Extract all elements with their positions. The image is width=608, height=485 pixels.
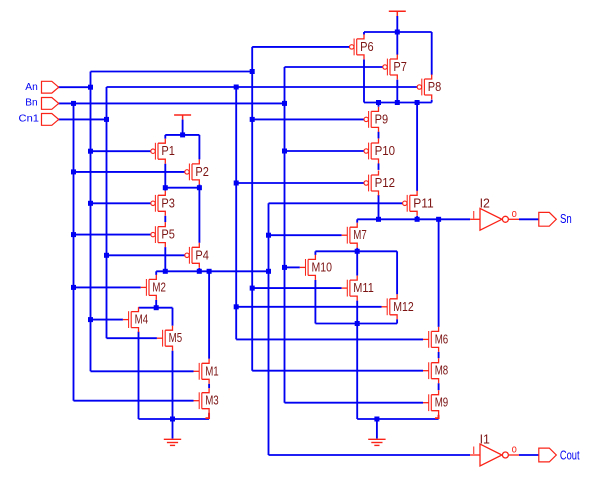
wire An top rail	[91, 71, 253, 73]
input port Cn1	[42, 114, 59, 126]
wire M7 drain stub	[356, 219, 358, 222]
wire M12 drain vertical	[396, 251, 398, 294]
svg-text:M9: M9	[435, 395, 449, 410]
transistor M3 (NMOS)	[194, 388, 210, 413]
junction M4 gate	[88, 317, 93, 322]
wire M11 gate wire	[252, 287, 341, 289]
wire P5 source vertical	[164, 247, 166, 271]
svg-text:P12: P12	[375, 175, 396, 190]
junction M2 gate	[71, 285, 76, 290]
wire M11 source vertical	[356, 301, 358, 324]
wire M2 drain stub	[155, 271, 157, 275]
junction M6 drain	[436, 217, 441, 222]
transistor M12 (NMOS)	[382, 294, 398, 319]
wire P2 source stub	[198, 184, 200, 187]
wire M5 gate wire	[107, 337, 157, 339]
wire node Cb vertical	[268, 203, 270, 455]
power VDD left	[174, 115, 191, 120]
junction P12 gate	[234, 181, 239, 186]
wire P3s-P5d stub	[164, 216, 166, 222]
wire node Sn rail	[357, 218, 470, 220]
junction P2s-P4d	[197, 185, 202, 190]
junction P11 drain	[415, 100, 420, 105]
wire I1 output wire	[519, 454, 539, 456]
wire M9 source stub	[438, 415, 440, 419]
svg-text:M10: M10	[312, 259, 333, 274]
svg-text:P9: P9	[375, 111, 389, 126]
svg-text:P11: P11	[413, 195, 434, 210]
wire M9 gate wire	[285, 402, 424, 404]
transistor M9 (NMOS)	[423, 390, 439, 415]
junction M11 gate	[250, 286, 255, 291]
junction P2 gate	[71, 169, 76, 174]
svg-text:M1: M1	[205, 363, 219, 378]
junction P9 drain	[376, 100, 381, 105]
junction P12 source	[376, 217, 381, 222]
wire P6 drain stub	[363, 32, 365, 35]
junction P4 source	[197, 269, 202, 274]
junction M10 gate	[282, 265, 287, 270]
wire M2 source stub	[155, 300, 157, 308]
svg-text:P6: P6	[360, 39, 374, 54]
svg-text:M8: M8	[435, 363, 449, 378]
transistor P7 (PMOS)	[383, 55, 398, 80]
wire M1 drain vertical	[208, 271, 210, 359]
svg-text:M11: M11	[353, 280, 374, 295]
svg-text:P8: P8	[428, 79, 442, 94]
svg-text:M7: M7	[353, 227, 367, 242]
junction P9 gate	[250, 117, 255, 122]
svg-text:P5: P5	[161, 227, 175, 242]
wire P2 gate wire	[74, 171, 185, 173]
junction M2 source	[154, 305, 159, 310]
wire P3 gate wire	[91, 202, 151, 204]
wire M4 gate wire	[91, 319, 123, 321]
wire M6 drain vertical	[438, 219, 440, 327]
transistor P12 (PMOS)	[364, 171, 379, 196]
junction VDD left	[180, 132, 185, 137]
wire M6 gate wire	[236, 338, 423, 340]
junction Cb rail end	[266, 269, 271, 274]
svg-text:P3: P3	[161, 195, 175, 210]
inverter I2	[470, 208, 519, 230]
wire P6 gate wire	[252, 46, 349, 48]
junction M7 gate	[266, 233, 271, 238]
wire I2 output wire	[519, 218, 539, 220]
wire box to ground vertical	[356, 324, 358, 420]
wire M10 drain stub	[314, 251, 316, 255]
wire M8s-M9d stub	[438, 383, 440, 390]
wire pmos block rail	[364, 102, 432, 104]
transistor M6 (NMOS)	[423, 327, 439, 352]
junction Bn rail-branch	[282, 101, 287, 106]
wire P10s-P12d stub	[378, 163, 380, 170]
wire box bottom rail	[315, 323, 397, 325]
wire top rail VDD	[364, 31, 432, 33]
wire P5 gate wire	[74, 234, 151, 236]
svg-text:M5: M5	[169, 330, 183, 345]
transistor P6 (PMOS)	[350, 34, 365, 59]
wire M2s-M4d-M5d wire	[139, 307, 173, 309]
wire Bn rail	[58, 102, 284, 104]
wire P7 source stub	[396, 80, 398, 103]
transistor P2 (PMOS)	[185, 159, 200, 184]
svg-text:Sn: Sn	[560, 211, 572, 226]
svg-text:P4: P4	[195, 247, 209, 262]
wire P9 gate wire	[252, 118, 364, 120]
wire right ground rail	[357, 418, 438, 420]
wire P11 drain vertical	[416, 103, 418, 191]
wire Cn1 upper rail to P8 gate	[107, 86, 418, 88]
wire M9 source corner (red)	[435, 415, 439, 418]
junction P7 source	[395, 100, 400, 105]
wire Cn1 vertical	[106, 87, 108, 338]
svg-text:Bn: Bn	[25, 98, 37, 109]
wire P7 gate wire	[285, 66, 383, 68]
wire M5 source vertical	[172, 351, 174, 419]
wire M1s-M3d stub	[208, 384, 210, 388]
wire M7 gate wire	[269, 234, 342, 236]
transistor M2 (NMOS)	[141, 275, 157, 300]
svg-text:M3: M3	[205, 393, 219, 408]
transistor P4 (PMOS)	[185, 243, 200, 268]
wire M8 gate wire	[252, 370, 423, 372]
wire An branch vertical	[251, 47, 253, 371]
wire M10 gate wire	[285, 266, 300, 268]
junction right ground	[374, 417, 379, 422]
ground left	[164, 419, 181, 445]
wire box top rail	[315, 250, 397, 252]
junction P10 gate	[282, 149, 287, 154]
wire M1 gate wire	[91, 370, 194, 372]
wire Cn1 port wire	[58, 118, 106, 120]
transistor P8 (PMOS)	[417, 75, 432, 100]
power VDD top	[389, 11, 406, 16]
svg-text:M4: M4	[135, 312, 149, 327]
wire An port wire	[58, 86, 90, 88]
junction P5 source	[163, 269, 168, 274]
wire P2 drain stub	[198, 135, 200, 160]
wire M3 gate wire	[74, 400, 194, 402]
svg-text:P1: P1	[161, 143, 175, 158]
wire I1 input wire	[269, 454, 471, 456]
wire M3 source stub	[208, 413, 210, 419]
wire left ground rail	[139, 418, 210, 420]
wire An vertical	[90, 72, 92, 372]
transistor M1 (NMOS)	[194, 359, 210, 384]
junction P1 gate	[88, 149, 93, 154]
svg-text:An: An	[25, 82, 38, 93]
junction box top	[355, 249, 360, 254]
wire P6 source vertical	[363, 60, 365, 103]
junction P4 gate	[104, 253, 109, 258]
svg-text:P2: P2	[195, 164, 209, 179]
wire P1 source stub	[164, 164, 166, 188]
junction M1 drain	[207, 269, 212, 274]
wire Bn branch vertical	[284, 67, 286, 403]
junction P3 gate	[88, 201, 93, 206]
wire P1 gate wire	[91, 150, 151, 152]
wire M11 drain vertical	[356, 251, 358, 275]
transistor P9 (PMOS)	[364, 107, 379, 132]
wire P8 drain vertical	[431, 32, 433, 75]
svg-text:o: o	[512, 444, 517, 456]
ground right	[368, 419, 385, 445]
transistor P11 (PMOS)	[403, 191, 418, 216]
wire M6s-M8d stub	[438, 352, 440, 358]
transistor P10 (PMOS)	[364, 139, 379, 164]
junction An rail-branch	[250, 69, 255, 74]
svg-text:I: I	[472, 445, 475, 457]
wire M3 source corner (red)	[206, 413, 210, 418]
svg-text:P10: P10	[375, 143, 396, 158]
wire P1 drain stub	[164, 135, 166, 139]
wire P3 drain stub	[164, 188, 166, 191]
wire M12 gate wire	[236, 306, 381, 308]
wire M2 gate wire	[74, 286, 141, 288]
wire M5 drain vertical	[172, 308, 174, 326]
svg-text:I1: I1	[480, 431, 490, 446]
junction P1s-P3d	[163, 185, 168, 190]
junction Cn1	[104, 117, 109, 122]
output port Sn	[539, 212, 557, 226]
wire node Cb rail	[156, 270, 268, 272]
junction P5 gate	[71, 232, 76, 237]
junction Bn	[71, 101, 76, 106]
svg-text:Cn1: Cn1	[19, 113, 40, 124]
wire P12 gate wire	[236, 182, 364, 184]
junction M12 gate	[234, 304, 239, 309]
svg-text:I2: I2	[480, 196, 490, 211]
wire Cn1 branch vertical	[235, 87, 237, 339]
transistor P5 (PMOS)	[151, 222, 166, 247]
input port An	[42, 81, 59, 93]
transistor M10 (NMOS)	[300, 255, 316, 280]
junction P11 source	[415, 217, 420, 222]
svg-text:M12: M12	[393, 299, 414, 314]
wire P4 gate wire	[107, 254, 185, 256]
wire P9s-P10d stub	[378, 132, 380, 139]
wire M7 source stub	[356, 248, 358, 252]
junction Cn1 rail-branch	[234, 85, 239, 90]
junction VDD top	[395, 30, 400, 35]
junction An	[88, 85, 93, 90]
svg-text:o: o	[512, 208, 517, 220]
svg-text:Cout: Cout	[560, 447, 580, 462]
wire P4 source stub	[198, 268, 200, 271]
wire P7 drain vertical	[396, 32, 398, 55]
wire P10 gate wire	[285, 150, 365, 152]
svg-text:M2: M2	[152, 279, 166, 294]
transistor M4 (NMOS)	[123, 307, 139, 332]
wire Bn vertical	[73, 103, 75, 400]
wire P8 source stub	[431, 100, 433, 103]
wire P11 gate wire	[269, 202, 403, 204]
output port Cout	[539, 448, 557, 462]
wire node P1s-P3d wire	[165, 187, 199, 189]
transistor M11 (NMOS)	[342, 276, 358, 301]
transistor M5 (NMOS)	[157, 326, 173, 351]
wire P11 source stub	[416, 216, 418, 219]
wire M12 source stub	[396, 319, 398, 323]
transistor M8 (NMOS)	[423, 358, 439, 383]
svg-text:I: I	[472, 209, 475, 221]
svg-text:P7: P7	[393, 59, 407, 74]
wire M4 source vertical	[138, 332, 140, 419]
inverter I1	[470, 444, 519, 466]
wire M10 source vertical	[314, 280, 316, 324]
junction left ground	[170, 417, 175, 422]
wire P12 source vertical	[378, 195, 380, 219]
transistor M7 (NMOS)	[342, 223, 358, 248]
transistor P3 (PMOS)	[151, 191, 166, 216]
junction box bottom	[355, 321, 360, 326]
wire P9 drain stub	[378, 103, 380, 107]
wire VDD left rail	[165, 134, 199, 136]
wire P2s-P4d vertical	[198, 188, 200, 243]
input port Bn	[42, 98, 59, 110]
transistor P1 (PMOS)	[151, 139, 166, 164]
svg-text:M6: M6	[435, 331, 449, 346]
